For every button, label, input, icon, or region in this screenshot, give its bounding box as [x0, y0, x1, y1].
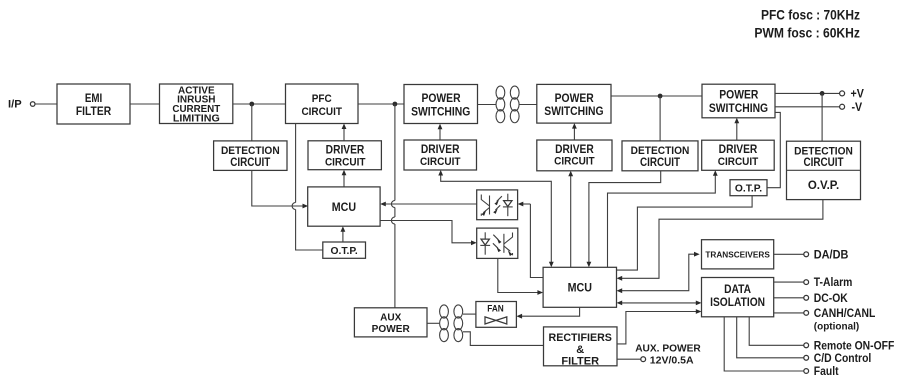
wire opto 1 to MCU 1 arrow left [380, 202, 477, 207]
junction node D [820, 91, 825, 96]
wire DATA ISOLATION to CANH/CANL [774, 312, 804, 314]
svg-text:FAN: FAN [487, 303, 504, 314]
wire MCU 1 to DRIVER 1 arrow up [342, 170, 347, 187]
output terminal DA/DB [804, 249, 849, 261]
wire MCU 2 to FAN arrow left [516, 307, 579, 318]
block DETECTION CIRCUIT 3 with OVP [787, 141, 861, 199]
svg-text:O.T.P.: O.T.P. [735, 183, 762, 194]
svg-text:DRIVER: DRIVER [326, 144, 365, 157]
block TRANSCEIVERS [702, 240, 774, 269]
label AUX POWER output [635, 343, 701, 354]
output terminal CANH/CANL optional [804, 308, 876, 333]
wire DRIVER 2 to PS1 arrow up [438, 124, 443, 140]
block MCU 2 [543, 267, 616, 307]
wire DRIVER 1 to PFC arrow up [342, 124, 347, 141]
wire MCU 2 to DRIVER 4 arrow up [608, 170, 718, 267]
block MCU 1 [308, 187, 380, 226]
wire INRUSH to PFC [233, 103, 286, 105]
svg-text:ISOLATION: ISOLATION [710, 296, 765, 309]
svg-text:DRIVER: DRIVER [719, 143, 758, 156]
block OTP 2 [730, 180, 767, 196]
svg-text:-V: -V [852, 102, 863, 114]
block AUX POWER [354, 308, 427, 337]
block DETECTION CIRCUIT 1 [214, 141, 287, 171]
label: PFC fosc [761, 7, 860, 23]
wire PFC to POWER SWITCHING 1 [358, 103, 404, 105]
block FAN [476, 302, 517, 328]
wire DATA ISOLATION to DC-OK [774, 297, 804, 299]
wire MCU 1 to opto 2 arrow right [380, 221, 477, 246]
block RECTIFIERS FILTER [544, 327, 618, 368]
wire PS3 to -V [775, 106, 840, 108]
svg-text:SWITCHING: SWITCHING [544, 106, 603, 119]
wire DETECTION 2 to MCU 2 arrow down [587, 171, 661, 267]
wire MCU 2 to DRIVER 3 arrow up [568, 171, 573, 267]
wire DATA ISOLATION to Remote ON-OFF [749, 317, 804, 346]
wire node A down to DETECTION 1 [251, 104, 253, 141]
wire PFC down to OTP 1 with hop [292, 124, 323, 251]
wire OTP 2 to MCU 2 [617, 196, 753, 270]
wire DATA ISOLATION to C/D Control [737, 317, 804, 358]
wire TRANSCEIVERS to DA/DB [774, 253, 804, 255]
svg-text:PWM fosc : 60KHz: PWM fosc : 60KHz [754, 25, 860, 41]
svg-text:RECTIFIERS: RECTIFIERS [549, 332, 612, 344]
svg-text:CANH/CANL: CANH/CANL [814, 308, 876, 321]
wire MCU 2 to DATA ISOLATION both arrows [617, 301, 702, 306]
svg-text:+V: +V [851, 88, 865, 100]
svg-text:PFC fosc : 70KHz: PFC fosc : 70KHz [761, 7, 860, 23]
svg-text:Remote ON-OFF: Remote ON-OFF [814, 340, 895, 353]
optocoupler U2 [477, 228, 518, 258]
svg-text:SWITCHING: SWITCHING [709, 102, 768, 115]
svg-text:AUX. POWER: AUX. POWER [635, 343, 701, 354]
svg-text:T-Alarm: T-Alarm [814, 277, 853, 290]
wire PS1 to transformer T1 [478, 104, 496, 106]
wire transformer T2 to RECTIFIERS [463, 332, 544, 346]
svg-text:POWER: POWER [719, 89, 758, 102]
svg-text:CIRCUIT: CIRCUIT [230, 156, 270, 169]
output terminal Fault [804, 366, 839, 379]
block DRIVER CIRCUIT 1 [308, 141, 381, 170]
wire MCU 2 to TRANSCEIVERS both arrows [617, 252, 700, 293]
svg-text:Fault: Fault [814, 366, 839, 379]
svg-text:CIRCUIT: CIRCUIT [640, 156, 680, 169]
junction node C [658, 94, 663, 99]
block ACTIVE INRUSH CURRENT LIMITING [160, 84, 233, 124]
output terminal Remote ON-OFF [804, 340, 895, 353]
wire DATA ISOLATION to Fault [724, 317, 804, 371]
wire PS3 to +V [775, 92, 840, 94]
wire DRIVER 2 to MCU 2 both arrows [438, 170, 553, 267]
svg-text:C/D Control: C/D Control [814, 352, 871, 365]
wire DRIVER 4 to PS3 arrow up [734, 118, 739, 140]
wire DATA ISOLATION to T-Alarm [774, 281, 804, 283]
wire RECTIFIERS to DATA ISOLATION arrow right [617, 309, 702, 344]
transformer T1 [496, 86, 519, 123]
wire node C down to DETECTION 2 [659, 96, 661, 141]
wire AUX POWER to transformer T2 [427, 322, 439, 324]
block DRIVER CIRCUIT 4 [702, 140, 775, 170]
wire DETECTION 1 to MCU 1 [252, 170, 308, 208]
block OTP 1 [323, 242, 366, 258]
output terminal 12V/0.5A [641, 354, 694, 366]
svg-text:DC-OK: DC-OK [814, 292, 848, 305]
svg-text:DRIVER: DRIVER [421, 143, 460, 156]
block DRIVER CIRCUIT 3 [537, 140, 612, 171]
block POWER SWITCHING 1 [404, 85, 478, 124]
svg-text:O.V.P.: O.V.P. [808, 180, 839, 192]
block POWER SWITCHING 3 [702, 84, 775, 118]
wire DRIVER 3 to PS2 arrow up [572, 123, 577, 140]
svg-text:I/P: I/P [8, 98, 22, 110]
block EMI FILTER [57, 84, 130, 124]
svg-text:DRIVER: DRIVER [555, 143, 594, 156]
svg-text:POWER: POWER [421, 93, 460, 106]
svg-text:EMI: EMI [85, 92, 102, 105]
svg-text:TRANSCEIVERS: TRANSCEIVERS [705, 249, 770, 259]
svg-text:&: & [576, 344, 584, 356]
svg-text:POWER: POWER [372, 324, 411, 335]
svg-text:12V/0.5A: 12V/0.5A [650, 354, 694, 366]
svg-text:MCU: MCU [332, 201, 356, 213]
block POWER SWITCHING 2 [537, 84, 611, 123]
svg-text:FILTER: FILTER [561, 356, 599, 368]
svg-text:CIRCUIT: CIRCUIT [554, 155, 595, 168]
svg-text:CIRCUIT: CIRCUIT [301, 105, 342, 118]
svg-text:SWITCHING: SWITCHING [411, 106, 470, 119]
svg-text:PFC: PFC [312, 92, 332, 105]
optocoupler U1 [477, 190, 518, 220]
svg-text:DATA: DATA [724, 283, 751, 296]
svg-text:MCU: MCU [568, 282, 592, 294]
wire node D down to OVP DETECTION [821, 93, 823, 141]
wire EMI to INRUSH [130, 103, 160, 105]
block DATA ISOLATION [702, 278, 774, 317]
block PFC CIRCUIT [286, 84, 359, 124]
junction node B [393, 102, 398, 107]
svg-text:(optional): (optional) [814, 321, 859, 332]
wire I/P to EMI [35, 103, 57, 105]
label: PWM fosc [754, 25, 860, 41]
svg-text:AUX: AUX [380, 312, 401, 323]
svg-text:FILTER: FILTER [76, 105, 111, 118]
wire PS3 to OTP 2 [767, 112, 780, 187]
svg-text:LIMITING: LIMITING [173, 114, 220, 125]
block DETECTION CIRCUIT 2 [622, 141, 698, 171]
wire RECTIFIERS to aux output [617, 358, 641, 360]
wire node B down to AUX POWER with hops [391, 104, 394, 308]
wire OVP to MCU 2 arrow left [617, 200, 823, 281]
output terminal DC-OK [804, 292, 848, 305]
output terminal +V [840, 88, 865, 100]
wire transformer T1 to PS2 [520, 104, 537, 106]
output terminal C/D Control [804, 352, 871, 365]
svg-text:CIRCUIT: CIRCUIT [420, 155, 461, 168]
wire opto 2 to MCU 2 arrow right [498, 258, 543, 295]
block DRIVER CIRCUIT 2 [404, 140, 477, 170]
output terminal -V [840, 102, 863, 114]
svg-text:CIRCUIT: CIRCUIT [803, 157, 843, 170]
output terminal T-Alarm [804, 277, 853, 290]
wire OTP 1 to MCU 1 arrow up [341, 226, 346, 242]
svg-text:DA/DB: DA/DB [814, 249, 849, 261]
input terminal I/P [8, 98, 35, 110]
svg-text:O.T.P.: O.T.P. [330, 246, 357, 257]
svg-text:POWER: POWER [555, 92, 594, 105]
junction node A [249, 102, 254, 107]
wire PS2 to PS3 [611, 95, 702, 97]
wire transformer T2 to FAN [463, 313, 476, 315]
svg-text:CIRCUIT: CIRCUIT [718, 155, 759, 168]
transformer T2 [440, 305, 463, 342]
wire MCU 2 to opto 1 arrow left [518, 202, 544, 278]
svg-text:CIRCUIT: CIRCUIT [325, 156, 366, 169]
